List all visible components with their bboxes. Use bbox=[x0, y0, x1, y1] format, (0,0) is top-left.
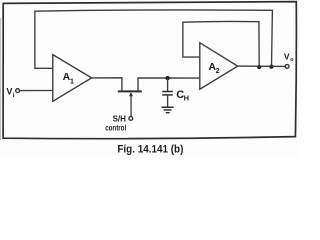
svg-text:1: 1 bbox=[70, 78, 74, 85]
svg-text:V: V bbox=[6, 87, 12, 97]
node A: hold node junction dot bbox=[166, 76, 170, 80]
node: junction dot at Vo line (global feedback) bbox=[269, 65, 273, 69]
wire: global feedback from Vo node to A1 noninverting input bbox=[35, 10, 273, 68]
wire: local feedback loop around A2 bbox=[183, 21, 259, 67]
svg-text:H: H bbox=[184, 94, 189, 103]
transistor Q1 gate arrow bbox=[129, 92, 133, 96]
transistor Q1 channel bar bbox=[118, 90, 142, 92]
capacitor CH bbox=[167, 78, 169, 91]
wire: gate to S/H control terminal bbox=[130, 95, 132, 116]
wire: A2 output to Vo terminal bbox=[238, 65, 286, 67]
svg-text:control: control bbox=[105, 123, 126, 132]
svg-text:Fig. 14.141 (b): Fig. 14.141 (b) bbox=[117, 143, 183, 155]
svg-text:o: o bbox=[290, 57, 294, 63]
scan edge smudge bbox=[0, 18, 2, 140]
svg-text:i: i bbox=[13, 92, 15, 99]
node: junction dot at A2 output (local feedback) bbox=[257, 65, 261, 69]
terminal S/H control bbox=[129, 117, 133, 121]
ground bbox=[162, 106, 174, 108]
wire: switch source to hold node and A2 input bbox=[138, 78, 200, 91]
svg-text:S/H: S/H bbox=[113, 114, 127, 123]
wire: Vi to A1 input bbox=[20, 90, 53, 92]
border frame (decorative) bbox=[3, 2, 296, 139]
op-amp A1 bbox=[53, 55, 92, 102]
terminal Vo bbox=[285, 65, 289, 69]
terminal Vi bbox=[16, 89, 20, 93]
svg-text:2: 2 bbox=[216, 68, 220, 75]
op-amp A2 bbox=[200, 43, 238, 89]
svg-text:V: V bbox=[284, 52, 290, 62]
wire: A1 output to switch drain bbox=[92, 78, 122, 91]
